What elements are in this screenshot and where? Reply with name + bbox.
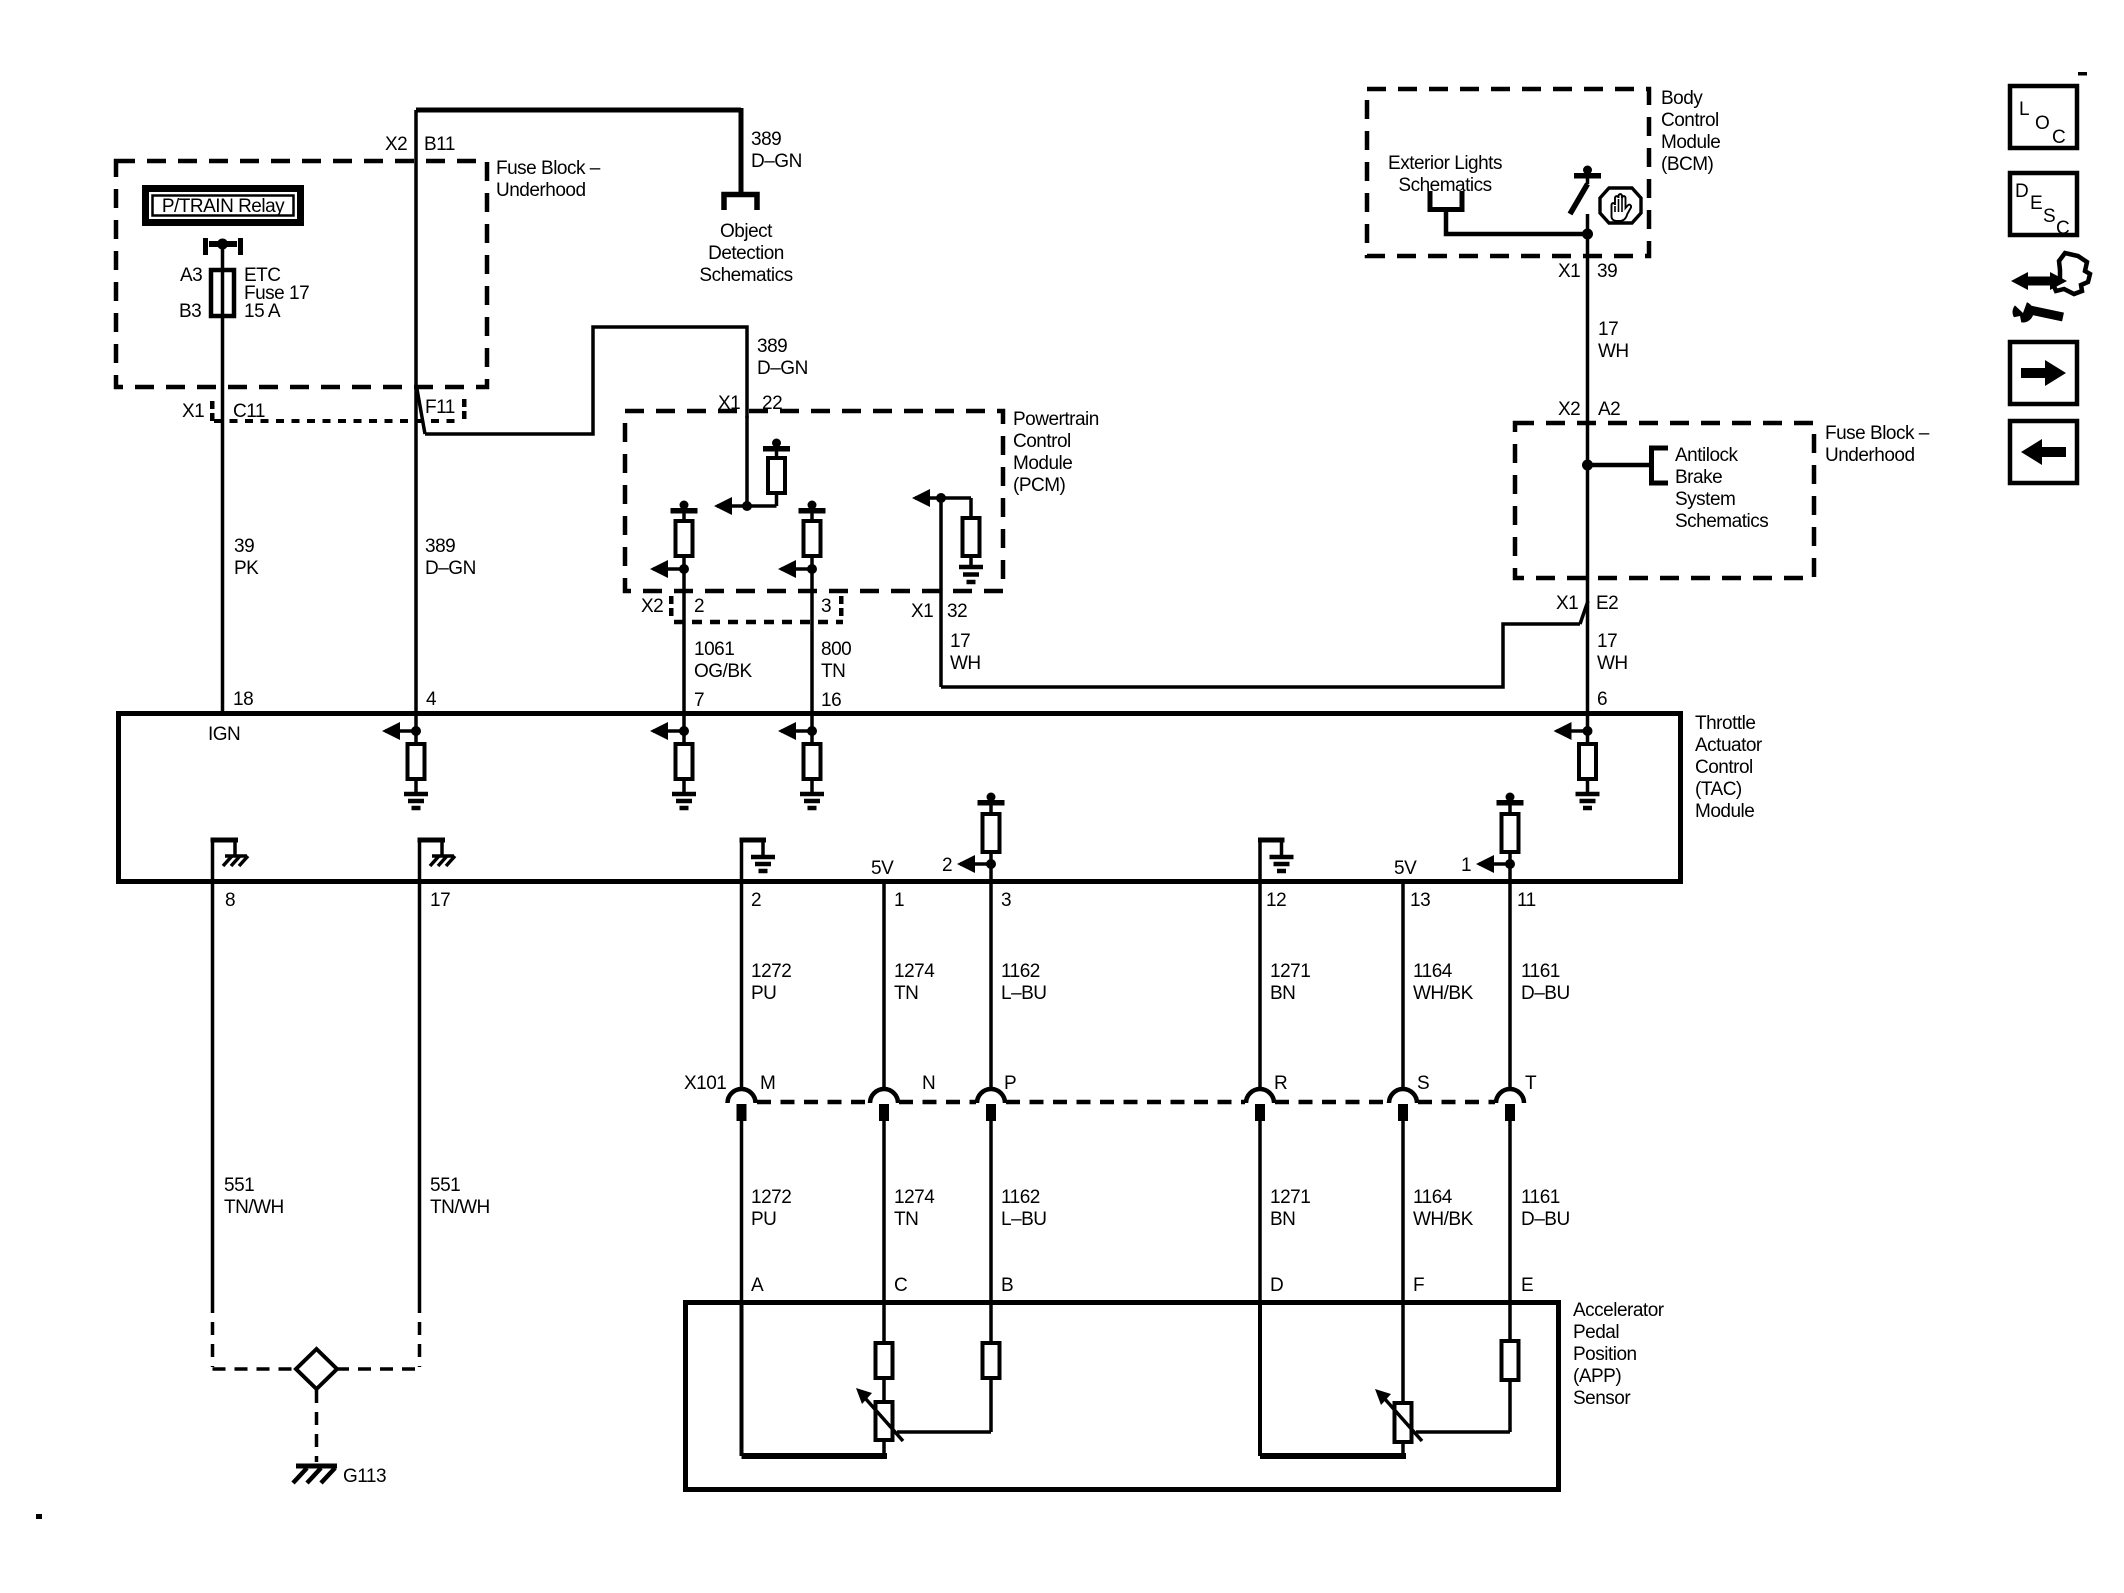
svg-text:L: L <box>2019 99 2029 120</box>
pin label 18 <box>233 689 253 710</box>
icon box DESC <box>2010 173 2077 239</box>
connector X101 pin R <box>1246 1073 1287 1121</box>
svg-text:Control: Control <box>1013 431 1071 452</box>
svg-text:X2: X2 <box>385 134 407 155</box>
wire label 1061 OG/BK <box>694 639 753 682</box>
svg-text:11: 11 <box>1517 890 1536 911</box>
svg-text:Actuator: Actuator <box>1695 735 1763 756</box>
svg-text:389: 389 <box>425 536 455 557</box>
svg-text:WH: WH <box>1597 653 1628 674</box>
connector row C11-F11 dashed line <box>214 419 460 423</box>
label Body Control Module (BCM) <box>1661 88 1720 175</box>
svg-text:D–GN: D–GN <box>757 358 808 379</box>
net label IGN <box>208 724 240 745</box>
svg-text:(BCM): (BCM) <box>1661 154 1714 175</box>
svg-text:1061: 1061 <box>694 639 734 660</box>
pin label 16 <box>821 690 841 711</box>
PCM U1 Powertrain Control Module dashed box <box>625 411 1003 591</box>
wire 17 WH (PCM X1-32 to TAC pin 6 run) <box>941 601 1588 687</box>
wire label 389 D-GN (object detection) <box>751 129 802 172</box>
wire label 17 WH (BCM side) <box>1598 319 1629 362</box>
svg-text:389: 389 <box>751 129 781 150</box>
svg-text:Sensor: Sensor <box>1573 1388 1631 1409</box>
TAC pin 8 internal chassis ground <box>211 838 249 884</box>
APP pin A wire <box>742 1300 888 1456</box>
svg-text:Module: Module <box>1695 801 1754 822</box>
wire label 1271 BN <box>1270 961 1310 1004</box>
svg-text:BN: BN <box>1270 1209 1295 1230</box>
wire label 1162 L-BU (lower) <box>1001 1187 1047 1230</box>
pin label A3 <box>180 265 202 286</box>
label Exterior Lights Schematics <box>1388 153 1502 196</box>
label Antilock Brake System Schematics <box>1675 445 1768 532</box>
svg-text:Brake: Brake <box>1675 467 1722 488</box>
svg-text:X1: X1 <box>1556 593 1578 614</box>
svg-text:WH/BK: WH/BK <box>1413 983 1474 1004</box>
svg-text:C11: C11 <box>233 401 265 422</box>
svg-text:39: 39 <box>1597 261 1617 282</box>
pin label 13 <box>1410 890 1430 911</box>
wire 1271 BN (TAC 12 to X101 R) <box>1258 884 1262 1090</box>
feed tap above BCM switch <box>1574 166 1601 179</box>
connector X1 22 labels <box>718 393 782 414</box>
svg-text:D–BU: D–BU <box>1521 1209 1570 1230</box>
svg-text:1271: 1271 <box>1270 1187 1310 1208</box>
wire label 1164 WH/BK <box>1413 961 1474 1004</box>
svg-text:(APP): (APP) <box>1573 1366 1621 1387</box>
svg-text:7: 7 <box>694 690 704 711</box>
svg-text:S: S <box>2043 206 2055 227</box>
svg-text:Module: Module <box>1013 453 1072 474</box>
svg-text:T: T <box>1525 1073 1537 1094</box>
potentiometer APP2 (pedal position 2) <box>1375 1300 1422 1456</box>
connector X2 A2 labels <box>1558 399 1620 420</box>
svg-text:Pedal: Pedal <box>1573 1322 1619 1343</box>
wire 1162 L-BU (X101 P to APP B) <box>989 1121 993 1300</box>
TAC input pin 4: arrow, junction, resistor, ground <box>382 713 428 808</box>
fuse block underhood (left) dashed box <box>116 161 487 387</box>
connector F11 label <box>425 397 467 419</box>
wire label 17 WH (E2 side) <box>1597 631 1628 674</box>
svg-text:32: 32 <box>947 601 967 622</box>
svg-text:M: M <box>760 1073 775 1094</box>
switch S1 (BCM output driver) <box>1570 179 1588 235</box>
wire 17 WH (PCM X1-32 down) <box>939 498 943 687</box>
svg-text:D–GN: D–GN <box>425 558 476 579</box>
junction dot BCM switch output <box>1582 229 1593 240</box>
svg-text:X1: X1 <box>182 401 204 422</box>
svg-text:3: 3 <box>1001 890 1011 911</box>
svg-text:1272: 1272 <box>751 1187 791 1208</box>
svg-text:L–BU: L–BU <box>1001 1209 1047 1230</box>
label Fuse Block - Underhood (left) <box>496 158 601 201</box>
svg-text:5V: 5V <box>871 858 894 879</box>
connector X2 B11 labels <box>385 134 455 155</box>
svg-text:551: 551 <box>224 1175 254 1196</box>
connector row X2-2/X2-3 dashed line <box>674 620 843 625</box>
TAC input pin 6: arrow, junction, resistor, ground <box>1554 713 1600 808</box>
pin label E <box>1521 1275 1533 1296</box>
pin label 1 <box>894 890 904 911</box>
pin label 3 <box>1001 890 1011 911</box>
svg-text:G113: G113 <box>343 1466 386 1487</box>
pin label 2 <box>751 890 761 911</box>
relay K1 P/TRAIN Relay box <box>146 189 301 223</box>
wire 1272 PU (TAC 2 to X101 M) <box>740 884 744 1090</box>
wire 389 D-GN (fuse block B11 down to TAC pin 4) <box>414 110 418 713</box>
svg-text:8: 8 <box>225 890 235 911</box>
svg-text:O: O <box>2035 113 2049 134</box>
TAC pin 11 internal: feed tap, resistor, arrow 1 <box>1461 793 1524 885</box>
svg-text:S: S <box>1417 1073 1429 1094</box>
page mark top right <box>2078 72 2087 76</box>
connector X101 pin S <box>1389 1073 1429 1121</box>
off-page connector to Object Detection Schematics <box>724 195 757 211</box>
svg-text:A: A <box>751 1275 764 1296</box>
svg-text:18: 18 <box>233 689 253 710</box>
wire 1164 WH/BK (TAC 13 to X101 S) <box>1401 884 1405 1090</box>
svg-text:Module: Module <box>1661 132 1720 153</box>
svg-text:17: 17 <box>430 890 450 911</box>
svg-text:PU: PU <box>751 983 776 1004</box>
page mark bottom left <box>36 1514 42 1519</box>
icon box arrow right <box>2010 342 2077 404</box>
wire label 1274 TN (lower) <box>894 1187 935 1230</box>
svg-text:Powertrain: Powertrain <box>1013 409 1099 430</box>
svg-text:1274: 1274 <box>894 961 935 982</box>
svg-text:BN: BN <box>1270 983 1295 1004</box>
svg-text:Fuse Block –: Fuse Block – <box>496 158 601 179</box>
svg-text:4: 4 <box>426 689 437 710</box>
svg-text:Schematics: Schematics <box>1675 511 1768 532</box>
svg-text:B3: B3 <box>179 301 201 322</box>
wire label 800 TN <box>821 639 851 682</box>
junction dot at ABS tap <box>1582 460 1593 471</box>
pin label D <box>1270 1275 1283 1296</box>
svg-text:17: 17 <box>1597 631 1617 652</box>
svg-text:1161: 1161 <box>1521 961 1560 982</box>
svg-text:1: 1 <box>894 890 904 911</box>
connector X101 pin P <box>977 1073 1016 1121</box>
wire 1061 OG/BK (PCM X2-2 to TAC pin 7) <box>682 569 686 713</box>
svg-text:D–BU: D–BU <box>1521 983 1570 1004</box>
connector X1 C11 labels <box>182 401 265 422</box>
connector X101 pin T <box>1496 1073 1537 1121</box>
feed tap symbol above PCM resistor R2 <box>671 501 698 522</box>
svg-text:R: R <box>1274 1073 1287 1094</box>
wire 800 TN (PCM X2-3 to TAC pin 16) <box>810 569 814 713</box>
TAC input pin 16: arrow, junction, resistor, ground <box>778 713 824 808</box>
dashed wire splice to G113 <box>315 1390 319 1462</box>
wire 551 TN/WH (TAC 8 down) <box>211 884 215 1367</box>
fuse block underhood (right) dashed box <box>1515 423 1814 578</box>
svg-text:C: C <box>2056 218 2069 239</box>
wire to ABS connector <box>1588 463 1652 468</box>
connector X2 2 / 3 labels <box>641 596 844 617</box>
off-page connector to Exterior Lights Schematics <box>1430 191 1462 210</box>
svg-text:TN: TN <box>821 661 845 682</box>
svg-text:B: B <box>1001 1275 1013 1296</box>
svg-text:16: 16 <box>821 690 841 711</box>
svg-text:Throttle: Throttle <box>1695 713 1755 734</box>
wire 1271 BN (X101 R to APP D) <box>1258 1121 1262 1300</box>
wire label 39 PK <box>234 536 259 579</box>
connector X1 32 labels <box>911 601 967 622</box>
svg-text:Position: Position <box>1573 1344 1637 1365</box>
svg-text:Control: Control <box>1661 110 1719 131</box>
pin label F <box>1413 1275 1424 1296</box>
feed tap symbol above PCM resistor R3 <box>799 501 826 522</box>
BCM Body Control Module dashed box <box>1367 89 1649 256</box>
wire branch F11 to PCM X1-22 (389 D-GN) <box>417 327 747 434</box>
pin label B <box>1001 1275 1013 1296</box>
APP pin E wire, resistor and wiper <box>1416 1300 1519 1432</box>
svg-text:(PCM): (PCM) <box>1013 475 1066 496</box>
svg-text:13: 13 <box>1410 890 1430 911</box>
svg-text:800: 800 <box>821 639 851 660</box>
svg-text:N: N <box>922 1073 935 1094</box>
wire 551 TN/WH (TAC 17 down) <box>418 884 422 1367</box>
wire 1164 WH/BK (X101 S to APP F) <box>1401 1121 1405 1300</box>
svg-text:551: 551 <box>430 1175 460 1196</box>
wire label 389 D-GN (B11 branch) <box>425 536 476 579</box>
connector X1 39 labels <box>1558 261 1617 282</box>
connector X1 E2 labels <box>1556 593 1618 614</box>
svg-text:F: F <box>1413 1275 1424 1296</box>
connector X101 dashed body <box>757 1100 1495 1105</box>
svg-text:PK: PK <box>234 558 259 579</box>
label Powertrain Control Module (PCM) <box>1013 409 1099 496</box>
wire 1162 L-BU (TAC 3 to X101 P) <box>989 884 993 1090</box>
connector X101 pin N <box>870 1073 935 1121</box>
fuse F17 ETC Fuse 17 15A <box>211 270 234 316</box>
svg-text:X1: X1 <box>911 601 933 622</box>
ground symbol PCM internal <box>959 567 983 582</box>
svg-text:Body: Body <box>1661 88 1703 109</box>
wire 389 D-GN drop to object detection <box>739 108 744 194</box>
APP sensor B1 box <box>686 1303 1559 1490</box>
connector X101 pin M <box>728 1073 776 1121</box>
svg-text:A2: A2 <box>1598 399 1620 420</box>
svg-text:3: 3 <box>821 596 831 617</box>
feed tap symbol above PCM resistor R1 <box>763 439 790 459</box>
wire exterior lights to switch junction <box>1446 209 1585 234</box>
svg-text:17: 17 <box>950 631 970 652</box>
wire label 17 WH (PCM side) <box>950 631 981 674</box>
svg-text:E: E <box>1521 1275 1533 1296</box>
wire 1274 TN (X101 N to APP C) <box>882 1121 886 1300</box>
svg-text:Schematics: Schematics <box>1398 175 1491 196</box>
svg-text:Control: Control <box>1695 757 1753 778</box>
svg-text:Fuse Block –: Fuse Block – <box>1825 423 1930 444</box>
svg-text:PU: PU <box>751 1209 776 1230</box>
svg-text:TN/WH: TN/WH <box>430 1197 490 1218</box>
pin label 17 <box>430 890 450 911</box>
wire label 551 TN/WH (right) <box>430 1175 490 1218</box>
svg-text:6: 6 <box>1597 689 1607 710</box>
pin label 6 <box>1597 689 1607 710</box>
junction dot relay output <box>217 239 228 250</box>
svg-text:Object: Object <box>720 221 773 242</box>
dashed bus to splice <box>213 1367 420 1371</box>
svg-text:L–BU: L–BU <box>1001 983 1047 1004</box>
svg-text:39: 39 <box>234 536 254 557</box>
pin label C <box>894 1275 907 1296</box>
svg-text:389: 389 <box>757 336 787 357</box>
svg-text:1: 1 <box>1461 855 1471 876</box>
svg-text:2: 2 <box>751 890 761 911</box>
input arrow and junction at PCM X1-32 <box>912 489 971 507</box>
off-page connector to Antilock Brake System Schematics <box>1652 448 1669 483</box>
wire 17 WH (BCM X1-39 down to TAC pin 6) <box>1586 234 1590 713</box>
APP pin B wire, resistor and wiper <box>897 1300 1000 1432</box>
svg-text:E2: E2 <box>1596 593 1618 614</box>
wire 39 PK (relay to TAC pin 18) <box>221 244 225 713</box>
svg-text:IGN: IGN <box>208 724 240 745</box>
pin label 4 <box>426 689 437 710</box>
resistor PCM R1 (pull-up on X1-22) <box>768 458 785 506</box>
wire 1161 D-BU (TAC 11 to X101 T) <box>1508 884 1512 1090</box>
svg-text:Exterior Lights: Exterior Lights <box>1388 153 1502 174</box>
wire labels upper row <box>751 961 791 1004</box>
wire label 389 D-GN (PCM feed) <box>757 336 808 379</box>
svg-text:WH: WH <box>1598 341 1629 362</box>
label Throttle Actuator Control (TAC) Module <box>1695 713 1763 822</box>
wire 1161 D-BU (X101 T to APP E) <box>1508 1121 1512 1300</box>
svg-text:P/TRAIN Relay: P/TRAIN Relay <box>162 196 285 217</box>
wire label 1161 D-BU (lower) <box>1521 1187 1570 1230</box>
svg-text:C: C <box>894 1275 907 1296</box>
svg-text:TN: TN <box>894 1209 918 1230</box>
svg-text:1271: 1271 <box>1270 961 1310 982</box>
wire 1272 PU (X101 M to APP A) <box>740 1121 744 1300</box>
wire label 1164 WH/BK (lower) <box>1413 1187 1474 1230</box>
svg-text:(TAC): (TAC) <box>1695 779 1742 800</box>
svg-text:12: 12 <box>1266 890 1286 911</box>
svg-text:1164: 1164 <box>1413 961 1453 982</box>
wire label 1271 BN (lower) <box>1270 1187 1310 1230</box>
wire label 551 TN/WH (left) <box>224 1175 284 1218</box>
pin label 8 <box>225 890 235 911</box>
wire label 1274 TN <box>894 961 935 1004</box>
svg-text:15 A: 15 A <box>244 301 281 322</box>
icon box arrow left <box>2010 421 2077 483</box>
pin label A <box>751 1275 764 1296</box>
relay terminal bracket <box>203 238 243 255</box>
resistor PCM R4 (on X1-32 to ground) <box>963 498 980 567</box>
svg-text:Detection: Detection <box>708 243 784 264</box>
svg-text:Underhood: Underhood <box>496 180 586 201</box>
net label G113 <box>343 1466 386 1487</box>
TAC pin 2 internal signal ground <box>740 838 776 884</box>
wire 389 D-GN top feed (horizontal) <box>416 108 741 113</box>
icon box LOC <box>2010 86 2077 148</box>
svg-text:X2: X2 <box>641 596 663 617</box>
svg-text:E: E <box>2030 193 2042 214</box>
svg-text:1162: 1162 <box>1001 961 1040 982</box>
value label ETC Fuse 17 15 A <box>244 265 309 322</box>
svg-text:1161: 1161 <box>1521 1187 1560 1208</box>
hand icon in octagon (driver alert) <box>1600 188 1641 223</box>
svg-text:5V: 5V <box>1394 858 1417 879</box>
svg-text:TN: TN <box>894 983 918 1004</box>
svg-text:2: 2 <box>694 596 704 617</box>
wire junction and input arrow at X1-22 <box>714 497 777 515</box>
svg-text:D: D <box>2015 181 2028 202</box>
splice S113 diamond <box>296 1349 337 1389</box>
svg-text:OG/BK: OG/BK <box>694 661 753 682</box>
connector X101 label <box>684 1073 726 1094</box>
wire label 1162 L-BU <box>1001 961 1047 1004</box>
svg-text:Schematics: Schematics <box>699 265 792 286</box>
svg-text:C: C <box>2052 127 2065 148</box>
TAC pin 12 internal signal ground <box>1258 838 1294 884</box>
svg-text:1272: 1272 <box>751 961 791 982</box>
svg-text:Antilock: Antilock <box>1675 445 1739 466</box>
svg-text:17: 17 <box>1598 319 1618 340</box>
resistor PCM R2 (pull-up on X2-2) <box>676 521 693 569</box>
TAC module U2 Throttle Actuator Control box <box>119 714 1681 882</box>
svg-text:Underhood: Underhood <box>1825 445 1915 466</box>
APP pin C wire and resistor <box>876 1300 893 1402</box>
svg-text:B11: B11 <box>424 134 455 155</box>
label Accelerator Pedal Position (APP) Sensor <box>1573 1300 1665 1409</box>
potentiometer APP1 (pedal position 1) <box>856 1388 903 1456</box>
pin label 7 <box>694 690 704 711</box>
TAC input pin 7: arrow, junction, resistor, ground <box>650 713 696 808</box>
resistor PCM R3 (pull-up on X2-3) <box>804 521 821 569</box>
output arrow and junction at PCM X2-2 <box>650 560 689 578</box>
svg-text:1164: 1164 <box>1413 1187 1453 1208</box>
svg-text:X101: X101 <box>684 1073 726 1094</box>
svg-text:TN/WH: TN/WH <box>224 1197 284 1218</box>
svg-text:Accelerator: Accelerator <box>1573 1300 1665 1321</box>
svg-text:2: 2 <box>942 855 952 876</box>
icon double-arrow with outline and wrench <box>2006 253 2090 330</box>
ground G113 chassis symbol <box>293 1466 337 1483</box>
pin label 11 <box>1517 890 1536 911</box>
net label 5V (left) <box>871 858 894 879</box>
wire labels lower row 1272 PU <box>751 1187 791 1230</box>
label Fuse Block - Underhood (right) <box>1825 423 1930 466</box>
svg-text:X1: X1 <box>1558 261 1580 282</box>
svg-text:X2: X2 <box>1558 399 1580 420</box>
wire label 1161 D-BU <box>1521 961 1570 1004</box>
svg-text:WH/BK: WH/BK <box>1413 1209 1474 1230</box>
svg-text:1274: 1274 <box>894 1187 935 1208</box>
svg-text:1162: 1162 <box>1001 1187 1040 1208</box>
svg-text:F11: F11 <box>425 397 455 418</box>
pin label B3 <box>179 301 201 322</box>
APP pin D wire <box>1260 1300 1406 1456</box>
net label 5V (right) <box>1394 858 1417 879</box>
wire PCM pin X1-22 internal <box>745 416 749 506</box>
output arrow and junction at PCM X2-3 <box>778 560 817 578</box>
TAC pin 3 internal: feed tap, resistor, arrow 2 <box>942 793 1005 885</box>
label Object Detection Schematics <box>699 221 792 286</box>
TAC pin 17 internal chassis ground <box>418 838 456 884</box>
svg-text:WH: WH <box>950 653 981 674</box>
svg-text:D–GN: D–GN <box>751 151 802 172</box>
svg-text:D: D <box>1270 1275 1283 1296</box>
svg-text:A3: A3 <box>180 265 202 286</box>
wire 1274 TN (TAC 1 to X101 N) <box>882 884 886 1090</box>
svg-text:System: System <box>1675 489 1735 510</box>
pin label 12 <box>1266 890 1286 911</box>
svg-text:P: P <box>1004 1073 1016 1094</box>
